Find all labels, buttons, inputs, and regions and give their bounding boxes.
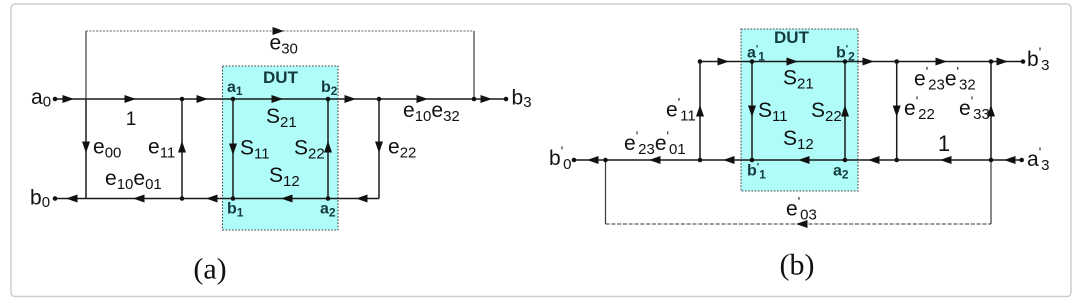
svg-text:(a): (a) — [193, 253, 226, 286]
svg-text:DUT: DUT — [263, 68, 299, 87]
svg-text:(b): (b) — [780, 249, 815, 282]
svg-text:1: 1 — [126, 109, 137, 130]
svg-text:1: 1 — [938, 131, 950, 156]
svg-text:DUT: DUT — [774, 28, 810, 47]
